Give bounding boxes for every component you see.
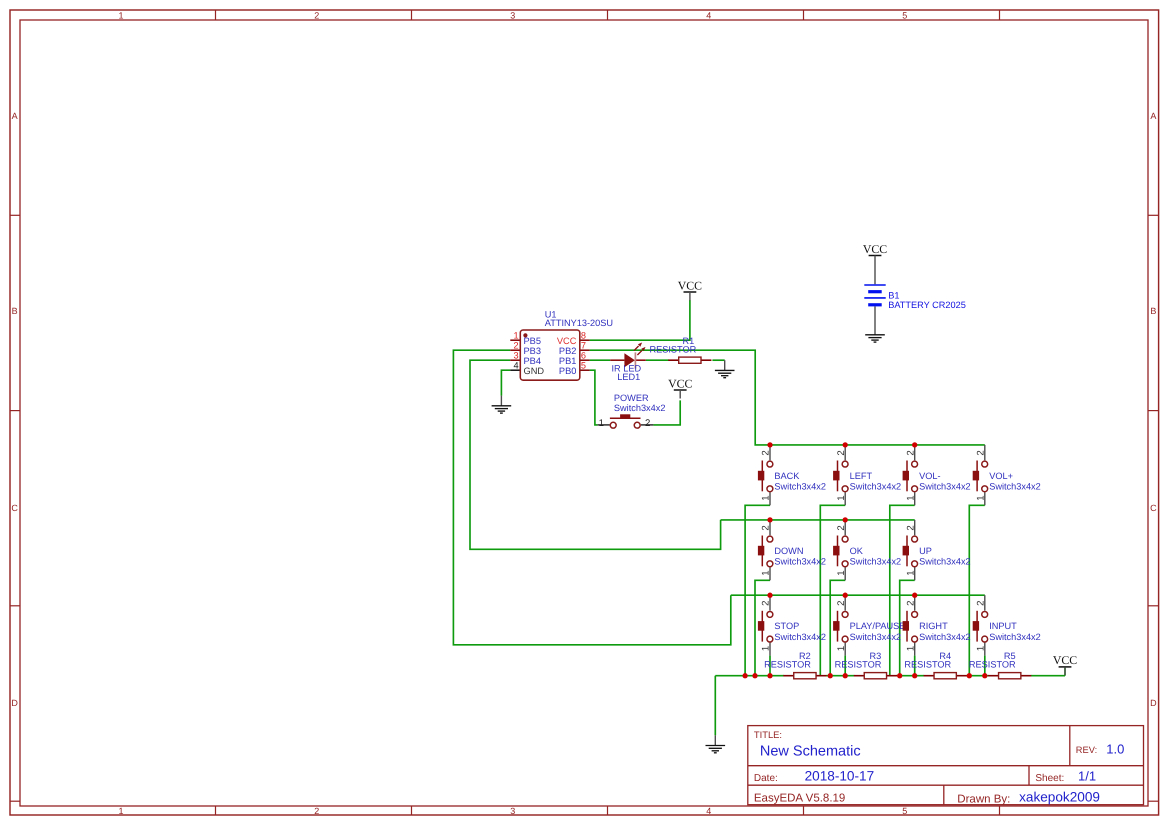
svg-text:TITLE:: TITLE: <box>754 729 782 740</box>
svg-text:Switch3x4x2: Switch3x4x2 <box>774 482 826 492</box>
svg-text:4: 4 <box>513 361 518 371</box>
svg-text:B: B <box>12 306 18 316</box>
svg-text:VOL+: VOL+ <box>989 471 1013 481</box>
svg-text:2: 2 <box>513 341 518 351</box>
svg-text:1: 1 <box>761 570 772 575</box>
svg-text:2: 2 <box>314 10 319 20</box>
svg-text:B1: B1 <box>888 290 899 300</box>
svg-text:A: A <box>1150 111 1156 121</box>
svg-text:B: B <box>1150 306 1156 316</box>
svg-text:ATTINY13-20SU: ATTINY13-20SU <box>545 318 613 328</box>
svg-text:2: 2 <box>836 525 847 530</box>
svg-text:BATTERY CR2025: BATTERY CR2025 <box>888 300 966 310</box>
svg-text:RESISTOR: RESISTOR <box>969 660 1016 670</box>
svg-text:1.0: 1.0 <box>1106 741 1124 756</box>
svg-text:5: 5 <box>581 361 586 371</box>
svg-text:2: 2 <box>905 601 916 606</box>
svg-text:RESISTOR: RESISTOR <box>649 345 696 355</box>
svg-text:1: 1 <box>975 495 986 500</box>
svg-text:LEFT: LEFT <box>850 471 873 481</box>
svg-text:VCC: VCC <box>1053 653 1077 667</box>
svg-text:2: 2 <box>836 450 847 455</box>
svg-text:1: 1 <box>975 646 986 651</box>
svg-text:C: C <box>11 503 18 513</box>
svg-text:Switch3x4x2: Switch3x4x2 <box>774 557 826 567</box>
svg-text:3: 3 <box>510 10 515 20</box>
svg-text:8: 8 <box>581 331 586 341</box>
svg-text:1: 1 <box>905 570 916 575</box>
svg-text:1: 1 <box>761 646 772 651</box>
svg-text:4: 4 <box>706 806 711 816</box>
svg-text:VCC: VCC <box>668 376 692 390</box>
svg-text:Switch3x4x2: Switch3x4x2 <box>774 632 826 642</box>
svg-text:Switch3x4x2: Switch3x4x2 <box>850 482 902 492</box>
svg-text:1: 1 <box>118 806 123 816</box>
svg-text:DOWN: DOWN <box>774 546 803 556</box>
svg-text:1: 1 <box>905 495 916 500</box>
svg-text:2: 2 <box>314 806 319 816</box>
svg-text:2: 2 <box>761 450 772 455</box>
svg-text:PB3: PB3 <box>524 346 541 356</box>
svg-text:INPUT: INPUT <box>989 621 1017 631</box>
svg-text:Switch3x4x2: Switch3x4x2 <box>919 482 971 492</box>
svg-text:C: C <box>1150 503 1157 513</box>
svg-text:Sheet:: Sheet: <box>1035 773 1064 784</box>
svg-text:VCC: VCC <box>557 336 577 346</box>
svg-text:Date:: Date: <box>754 773 778 784</box>
svg-text:PB2: PB2 <box>559 346 576 356</box>
svg-text:2: 2 <box>761 601 772 606</box>
svg-text:D: D <box>11 698 18 708</box>
svg-text:1: 1 <box>599 418 604 429</box>
svg-text:REV:: REV: <box>1076 745 1097 755</box>
svg-text:7: 7 <box>581 341 586 351</box>
svg-text:1: 1 <box>836 495 847 500</box>
svg-text:GND: GND <box>524 366 545 376</box>
svg-text:VCC: VCC <box>863 242 887 256</box>
svg-text:D: D <box>1150 698 1157 708</box>
svg-text:1/1: 1/1 <box>1078 769 1096 784</box>
svg-text:2: 2 <box>836 601 847 606</box>
svg-text:1: 1 <box>118 10 123 20</box>
svg-text:Switch3x4x2: Switch3x4x2 <box>850 632 902 642</box>
svg-text:UP: UP <box>919 546 932 556</box>
svg-text:LED1: LED1 <box>617 372 640 382</box>
svg-text:EasyEDA V5.8.19: EasyEDA V5.8.19 <box>754 792 845 804</box>
svg-text:RESISTOR: RESISTOR <box>764 660 811 670</box>
svg-text:3: 3 <box>513 351 518 361</box>
svg-text:3: 3 <box>510 806 515 816</box>
svg-text:2: 2 <box>761 525 772 530</box>
svg-text:Drawn By:: Drawn By: <box>957 793 1010 805</box>
svg-text:5: 5 <box>902 806 907 816</box>
svg-text:6: 6 <box>581 351 586 361</box>
svg-text:VOL-: VOL- <box>919 471 940 481</box>
svg-text:STOP: STOP <box>774 621 799 631</box>
svg-text:Switch3x4x2: Switch3x4x2 <box>614 403 666 413</box>
svg-text:OK: OK <box>850 546 864 556</box>
svg-text:1: 1 <box>513 331 518 341</box>
svg-text:Switch3x4x2: Switch3x4x2 <box>989 482 1041 492</box>
svg-text:1: 1 <box>836 570 847 575</box>
svg-text:2: 2 <box>905 525 916 530</box>
svg-text:PB4: PB4 <box>524 356 541 366</box>
svg-text:PLAY/PAUSE: PLAY/PAUSE <box>850 621 906 631</box>
svg-text:2018-10-17: 2018-10-17 <box>805 769 875 784</box>
svg-text:New Schematic: New Schematic <box>760 743 861 759</box>
svg-text:1: 1 <box>905 646 916 651</box>
svg-text:2: 2 <box>645 418 650 429</box>
svg-text:PB5: PB5 <box>524 336 541 346</box>
svg-text:2: 2 <box>975 450 986 455</box>
svg-text:A: A <box>12 111 18 121</box>
svg-text:5: 5 <box>902 10 907 20</box>
svg-text:RIGHT: RIGHT <box>919 621 948 631</box>
svg-text:Switch3x4x2: Switch3x4x2 <box>989 632 1041 642</box>
svg-text:RESISTOR: RESISTOR <box>835 660 882 670</box>
svg-text:Switch3x4x2: Switch3x4x2 <box>919 557 971 567</box>
svg-text:RESISTOR: RESISTOR <box>904 660 951 670</box>
svg-text:xakepok2009: xakepok2009 <box>1019 790 1100 805</box>
svg-text:PB0: PB0 <box>559 366 576 376</box>
svg-text:PB1: PB1 <box>559 356 576 366</box>
svg-text:Switch3x4x2: Switch3x4x2 <box>850 557 902 567</box>
svg-text:BACK: BACK <box>774 471 800 481</box>
svg-text:Switch3x4x2: Switch3x4x2 <box>919 632 971 642</box>
svg-text:POWER: POWER <box>614 393 649 403</box>
svg-text:2: 2 <box>975 601 986 606</box>
svg-text:VCC: VCC <box>678 278 702 292</box>
svg-text:1: 1 <box>761 495 772 500</box>
svg-text:2: 2 <box>905 450 916 455</box>
svg-text:4: 4 <box>706 10 711 20</box>
svg-text:1: 1 <box>836 646 847 651</box>
